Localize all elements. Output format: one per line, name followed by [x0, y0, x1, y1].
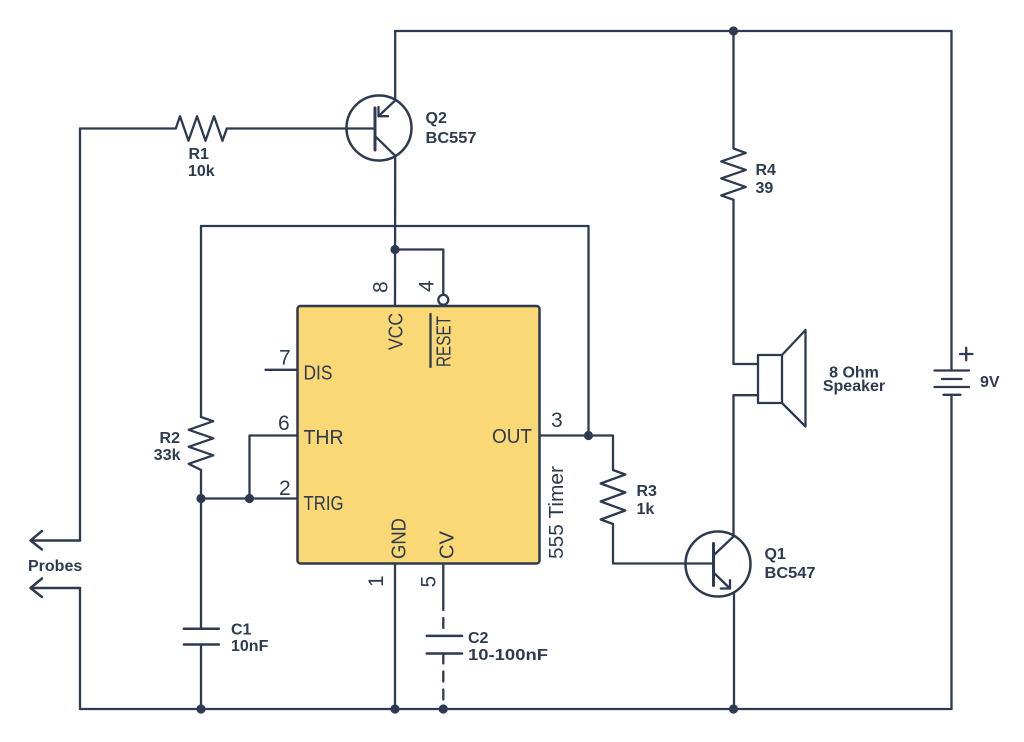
R4 value 39 — [756, 162, 777, 197]
wire TRIG junction down to C1 — [200, 499, 202, 629]
svg-text:555 Timer: 555 Timer — [546, 466, 568, 559]
probe arrow 2 — [31, 579, 81, 598]
capacitor C2 — [427, 636, 462, 654]
node top rail R4 branch — [729, 26, 738, 35]
svg-text:5: 5 — [418, 576, 441, 588]
node Q1 bottom rail junction — [729, 704, 738, 713]
svg-text:8: 8 — [370, 281, 393, 293]
svg-text:TRIG: TRIG — [304, 493, 344, 515]
wire bottom rail — [80, 708, 952, 710]
node GND bottom rail junction — [390, 704, 399, 713]
node OUT junction — [584, 431, 593, 440]
wire C1 to bottom rail — [200, 645, 202, 710]
svg-text:THR: THR — [304, 427, 344, 449]
svg-text:R1: R1 — [189, 146, 210, 163]
resistor R1 — [176, 116, 227, 141]
wire Q1 emitter to bottom rail — [733, 593, 735, 710]
wire OUT feedback up and across to R2 — [201, 226, 589, 436]
svg-text:Q1: Q1 — [765, 546, 786, 563]
svg-text:VCC: VCC — [386, 313, 408, 350]
wire feedback down to R2 top — [200, 226, 202, 417]
node C2 bottom rail junction — [439, 704, 448, 713]
svg-text:1k: 1k — [637, 501, 655, 518]
svg-text:BC557: BC557 — [426, 130, 477, 147]
capacitor C1 — [184, 629, 219, 645]
speaker SP1 — [734, 330, 806, 427]
svg-text:10-100nF: 10-100nF — [468, 647, 548, 664]
reset bubble pin 4 — [438, 295, 448, 305]
svg-text:BC547: BC547 — [765, 565, 816, 582]
svg-text:OUT: OUT — [492, 426, 532, 448]
svg-text:9V: 9V — [980, 374, 1000, 391]
wire R2 bottom to TRIG junction — [200, 470, 202, 499]
R1 value 10k — [188, 146, 215, 180]
battery BT1 9V — [935, 348, 973, 395]
svg-text:DIS: DIS — [304, 363, 333, 385]
wire top rail — [395, 30, 952, 32]
svg-text:Probes: Probes — [28, 558, 82, 575]
wire Q2 collector to pin 8 VCC — [394, 156, 397, 306]
svg-text:3: 3 — [551, 409, 563, 432]
node R2-TRIG-C1 junction — [196, 494, 205, 503]
wire probe 2 to bottom rail — [79, 588, 81, 709]
svg-text:10nF: 10nF — [231, 638, 269, 655]
probe arrow 1 — [31, 531, 81, 550]
wire R3 to Q1 base — [613, 524, 713, 564]
svg-text:1: 1 — [365, 575, 388, 587]
wire left rail to R1 — [80, 127, 176, 129]
resistor R3 — [601, 470, 626, 524]
wire R1 to Q2 base — [227, 127, 375, 129]
wire top rail down to R4 — [732, 31, 734, 149]
pin 2 TRIG wire — [201, 497, 298, 499]
svg-text:R4: R4 — [756, 162, 777, 179]
pin 5 CV dashed wire to C2 — [442, 564, 444, 601]
R3 value 1k — [637, 483, 658, 518]
C2 value 10-100nF — [468, 630, 548, 664]
R2 value 33k — [154, 430, 181, 464]
pin 6 THR stub and branch to TRIG — [250, 436, 298, 499]
wire pin8 branch to pin 4 RESET — [395, 250, 443, 295]
svg-text:CV: CV — [437, 530, 459, 559]
svg-text:6: 6 — [278, 412, 290, 435]
Q2 label BC557 — [426, 110, 477, 147]
wire Q1 collector up to speaker lower stub — [732, 395, 734, 535]
transistor Q1 BC547 — [686, 532, 751, 597]
svg-text:33k: 33k — [154, 447, 181, 464]
wire OUT to R3 — [589, 436, 614, 471]
svg-text:GND: GND — [389, 518, 411, 559]
pin 3 OUT wire — [540, 434, 589, 436]
node junction pin8 branch — [390, 245, 399, 254]
resistor R2 — [189, 417, 214, 470]
Q1 label BC547 — [765, 546, 816, 582]
pin 1 GND wire to bottom rail — [394, 564, 396, 710]
svg-text:R3: R3 — [637, 483, 658, 500]
C1 value 10nF — [231, 622, 269, 656]
transistor Q2 BC557 — [347, 96, 412, 161]
wire battery minus to bottom rail — [950, 395, 952, 709]
wire right rail to battery plus — [950, 31, 952, 371]
speaker label 8 Ohm Speaker — [823, 365, 885, 396]
resistor R4 — [721, 149, 746, 200]
svg-text:C2: C2 — [468, 630, 489, 647]
svg-text:10k: 10k — [188, 163, 215, 180]
svg-text:RESET: RESET — [434, 316, 456, 367]
dashed wire C2 to bottom rail — [442, 654, 444, 710]
pin 7 DIS stub — [266, 369, 298, 371]
wire left rail from R1 down to probe 1 — [79, 129, 81, 541]
svg-text:39: 39 — [756, 180, 774, 197]
wire R4 to speaker upper stub — [732, 200, 734, 364]
IC U1 555 timer body — [298, 306, 540, 564]
svg-text:4: 4 — [416, 280, 439, 292]
svg-text:2: 2 — [279, 477, 291, 500]
svg-text:C1: C1 — [231, 622, 252, 639]
svg-text:Speaker: Speaker — [823, 378, 885, 395]
svg-text:R2: R2 — [160, 430, 181, 447]
wire Q2 emitter to top rail — [394, 31, 396, 101]
node TRIG-THR junction — [245, 494, 254, 503]
node C1 bottom rail junction — [196, 704, 205, 713]
svg-text:Q2: Q2 — [426, 110, 447, 127]
svg-text:7: 7 — [279, 347, 291, 370]
